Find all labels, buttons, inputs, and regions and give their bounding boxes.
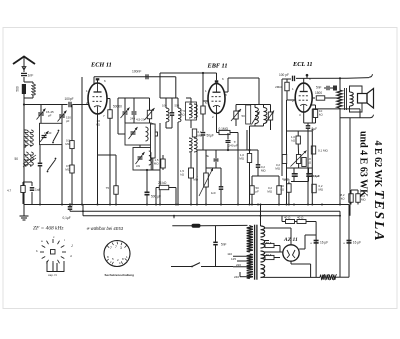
- resistor tone pot: [296, 155, 300, 164]
- svg-text:+: +: [310, 242, 312, 246]
- IF transformer 1 coil bottom: [189, 138, 192, 152]
- IF transformer 1 coil top: [189, 104, 192, 118]
- trimmer in left box: [42, 135, 47, 137]
- capacitor 240pF osc: [132, 111, 137, 113]
- capacitor 16uF a: [314, 240, 319, 242]
- capacitor 0.1uF bus: [68, 206, 73, 208]
- svg-text:240: 240: [234, 275, 239, 279]
- capacitor det small: [214, 158, 219, 160]
- svg-text:100 pF: 100 pF: [279, 73, 289, 77]
- wire output top: [339, 78, 341, 90]
- power transformer secondary: [261, 226, 265, 237]
- capacitor 0.1uF b: [308, 173, 313, 175]
- wire EBF left: [196, 150, 198, 204]
- output transformer secondary: [350, 92, 354, 106]
- svg-text:100pF: 100pF: [65, 97, 74, 101]
- svg-text:2MΩ: 2MΩ: [275, 85, 282, 89]
- svg-text:240: 240: [130, 117, 135, 121]
- svg-text:ZF = 468 kHz: ZF = 468 kHz: [33, 226, 64, 232]
- resistor ECH anode: [107, 98, 110, 100]
- tube ECL11: [295, 83, 312, 112]
- resistor 40ohm a: [286, 220, 295, 224]
- ECH top cap: [97, 79, 99, 83]
- resistor 0.2M tone: [282, 155, 286, 164]
- wire osc mid: [139, 145, 141, 148]
- resistor 0.5M b: [70, 165, 74, 173]
- ECL top cap: [306, 75, 308, 78]
- output transformer primary: [337, 90, 342, 108]
- svg-text:pF: pF: [66, 119, 70, 123]
- wire EBF grid drop: [202, 73, 204, 106]
- resistor IF2 right: [268, 112, 272, 120]
- svg-text:EBF 11: EBF 11: [207, 63, 228, 70]
- capacitor 1nF antenna: [21, 72, 27, 74]
- svg-text:4,5-20: 4,5-20: [44, 131, 52, 135]
- switch lower left: [48, 160, 56, 171]
- wire coupling line: [24, 104, 68, 106]
- wire det verticals: [237, 140, 239, 204]
- IF transformer 2 left coil: [255, 108, 258, 124]
- svg-text:Sechskreisschaltung: Sechskreisschaltung: [105, 273, 135, 277]
- EBF top cap: [216, 73, 218, 80]
- trimmer capacitor 150pF: [59, 114, 65, 116]
- capacitor AF coupling: [256, 164, 261, 166]
- output tap bottom: [340, 117, 370, 119]
- svg-text:0,1MΩ: 0,1MΩ: [219, 127, 229, 131]
- svg-text:220: 220: [236, 263, 241, 267]
- mains plug: [192, 224, 201, 228]
- resistor 0.1M osc: [192, 129, 196, 137]
- power transformer core: [254, 225, 256, 280]
- wire bus 3: [83, 215, 340, 217]
- trimmer capacitor osc 1: [123, 111, 128, 113]
- svg-text:5nF: 5nF: [316, 86, 322, 90]
- trimmer in box2: [138, 156, 143, 158]
- resistor 1.5k: [189, 168, 194, 178]
- svg-text:0,1 MΩ: 0,1 MΩ: [318, 149, 329, 153]
- svg-text:1nF: 1nF: [28, 74, 34, 78]
- svg-text:7: 7: [110, 246, 112, 250]
- band switch box 2: [133, 148, 151, 171]
- wire ECL top: [303, 78, 305, 83]
- resistor 0.2M AF: [247, 154, 251, 163]
- resistor 50.5 b: [265, 255, 274, 259]
- wire det node: [197, 149, 258, 151]
- svg-text:50,5: 50,5: [266, 241, 272, 245]
- trimmer IF2: [252, 112, 260, 125]
- tube ECH11: [88, 83, 107, 114]
- wire rail 181.5: [291, 181, 309, 183]
- capacitor 1nF bottom-left: [30, 187, 35, 189]
- capacitor dark osc: [170, 112, 175, 114]
- wire feeds down: [39, 204, 41, 206]
- bus3 dots: [173, 215, 175, 217]
- svg-text:0,1µF: 0,1µF: [282, 177, 289, 181]
- wire rail 168: [287, 167, 313, 169]
- capacitor 0.1uF a: [293, 173, 298, 175]
- antenna: [13, 57, 35, 65]
- svg-text:110: 110: [227, 252, 232, 256]
- svg-text:50,5: 50,5: [266, 253, 272, 257]
- wire top bus A: [94, 76, 176, 78]
- coil L1: [25, 130, 29, 147]
- svg-text:4 E 62 WK TESLA: 4 E 62 WK TESLA: [371, 141, 386, 243]
- svg-text:0,1µF: 0,1µF: [63, 216, 71, 220]
- svg-text:16 µF: 16 µF: [320, 241, 328, 245]
- wire bus 2: [70, 210, 340, 212]
- resistor 1500 ECL: [312, 97, 315, 99]
- resistor left bottom: [21, 186, 25, 193]
- resistor 24k: [159, 185, 169, 189]
- svg-text:1nF: 1nF: [211, 191, 216, 195]
- coil in box2: [149, 151, 152, 165]
- resistor 8.2k: [349, 194, 353, 203]
- svg-text:40 Ω: 40 Ω: [297, 216, 304, 220]
- resistor 25000 vertical: [151, 124, 156, 158]
- dial ticks: [107, 242, 128, 265]
- capacitor 240pF det: [226, 140, 231, 142]
- capacitor 5nF mains: [213, 241, 218, 243]
- band switch box left: [40, 123, 63, 144]
- wire EBF plate line: [225, 91, 229, 93]
- resistor 0.2M b: [356, 194, 360, 203]
- svg-text:40 Ω: 40 Ω: [284, 216, 291, 220]
- svg-text:pF: pF: [48, 114, 52, 118]
- resistor 4.5-20: [147, 110, 151, 119]
- band switch box 1: [125, 123, 151, 145]
- svg-text:7: 7: [115, 245, 117, 249]
- speaker: [358, 94, 368, 104]
- svg-text:50: 50: [14, 157, 18, 161]
- wire right vertical 2: [339, 211, 341, 277]
- svg-text:100nF: 100nF: [132, 70, 141, 74]
- svg-text:500: 500: [16, 86, 20, 92]
- capacitor 50uF EBF: [201, 132, 206, 134]
- resistor 1.0k: [296, 136, 300, 144]
- capacitor 0.1uF c: [292, 173, 297, 175]
- resistor 2M ECL: [285, 82, 289, 91]
- resistor 1M pot: [204, 173, 209, 187]
- svg-text:✳ wählbar bei 4E53: ✳ wählbar bei 4E53: [86, 226, 124, 231]
- capacitor lower left: [38, 162, 43, 164]
- svg-text:+: +: [343, 242, 345, 246]
- antenna coil transformer: [23, 77, 25, 82]
- resistor 50pF: [250, 186, 254, 195]
- svg-text:5nF: 5nF: [221, 242, 227, 246]
- wire heater run: [261, 276, 321, 278]
- svg-text:3: 3: [120, 246, 122, 250]
- switch diagram bracket: [47, 261, 64, 272]
- wire right vertical 350: [349, 118, 351, 216]
- mains cord line 2 with switch: [171, 266, 192, 268]
- svg-text:5k: 5k: [206, 154, 210, 158]
- wire left box down: [39, 145, 41, 163]
- svg-text:50µF: 50µF: [207, 133, 214, 137]
- output transformer core: [344, 88, 346, 110]
- resistor 18k: [302, 158, 306, 167]
- svg-text:MΩ: MΩ: [193, 178, 198, 182]
- svg-text:und 4 E 63 WK: und 4 E 63 WK: [358, 131, 369, 197]
- svg-text:ECH 11: ECH 11: [90, 62, 112, 69]
- resistor 30k: [287, 184, 291, 193]
- output tap top: [347, 77, 369, 80]
- wire top bus B: [160, 72, 217, 74]
- resistor 40ohm b: [297, 220, 306, 224]
- capacitor 100pF coupling: [68, 102, 70, 108]
- svg-text:0,04µF: 0,04µF: [311, 174, 320, 178]
- svg-text:500: 500: [175, 104, 180, 108]
- capacitor det 2: [219, 186, 224, 188]
- wire ECH grid: [81, 77, 83, 205]
- resistor 0.2M output: [312, 184, 316, 193]
- capacitor 0.04uF: [306, 173, 311, 175]
- capacitor 16uF b: [347, 240, 352, 242]
- speaker wires: [350, 86, 363, 94]
- power transformer primary: [247, 226, 253, 252]
- resistor 0.1M EBF: [219, 130, 230, 134]
- coil L2: [25, 152, 29, 167]
- wire secondary top feed: [260, 205, 262, 227]
- tube EBF11: [208, 84, 225, 114]
- resistor 50.5 a: [265, 243, 274, 247]
- resistor 1500 padder: [151, 132, 158, 136]
- svg-text:ECL 11: ECL 11: [292, 61, 313, 68]
- coil in box1: [146, 127, 149, 141]
- wire bus tick: [173, 216, 175, 219]
- wire ground bus: [24, 204, 349, 206]
- svg-text:cap. N: cap. N: [48, 273, 57, 277]
- wire left AF vertical: [286, 100, 288, 204]
- svg-text:125: 125: [231, 257, 236, 261]
- trimmer capacitor 15-45pF: [38, 112, 44, 114]
- wire rail 131: [287, 130, 313, 132]
- switch diagram: [51, 250, 56, 255]
- svg-text:4,7: 4,7: [7, 189, 12, 193]
- resistor 0.5M: [70, 141, 74, 149]
- AZ11 wires: [264, 227, 291, 229]
- capacitor 8uF ECL: [306, 125, 311, 127]
- IF transformer 2 right coil: [264, 108, 267, 124]
- resistor 0.2M grid: [277, 186, 281, 195]
- svg-text:16 µF: 16 µF: [353, 241, 361, 245]
- wire ECL cathode rail: [312, 108, 360, 110]
- svg-text:75: 75: [106, 186, 110, 190]
- svg-text:pF: pF: [256, 190, 260, 194]
- node antenna branch: [23, 103, 25, 105]
- mains cord line 1: [172, 225, 191, 227]
- svg-text:50: 50: [242, 114, 246, 118]
- dial circle: [104, 241, 130, 267]
- svg-text:4,5-20: 4,5-20: [136, 118, 145, 122]
- ground main left: [23, 204, 25, 210]
- resistor 50k ECL bottom: [313, 110, 317, 118]
- resistor 1.5M: [161, 159, 165, 168]
- trimmer 50 EBF anode: [234, 111, 238, 119]
- resistor 7.5k cathode: [114, 186, 118, 195]
- svg-text:24 kΩ: 24 kΩ: [158, 181, 167, 185]
- transformer taps: [233, 255, 250, 257]
- heater resistor: [320, 275, 336, 280]
- trimmer in box1: [131, 131, 136, 133]
- wire ECH cathode: [97, 114, 99, 204]
- tube AZ11: [283, 245, 299, 261]
- capacitor 500uF electrolytic: [145, 191, 150, 193]
- switch in left box: [53, 132, 59, 142]
- resistor EBF left: [201, 106, 205, 114]
- bus2 dots: [82, 210, 84, 212]
- svg-text:LW: LW: [136, 164, 140, 168]
- wire right vertical 1: [315, 222, 317, 278]
- svg-text:1500: 1500: [315, 91, 322, 95]
